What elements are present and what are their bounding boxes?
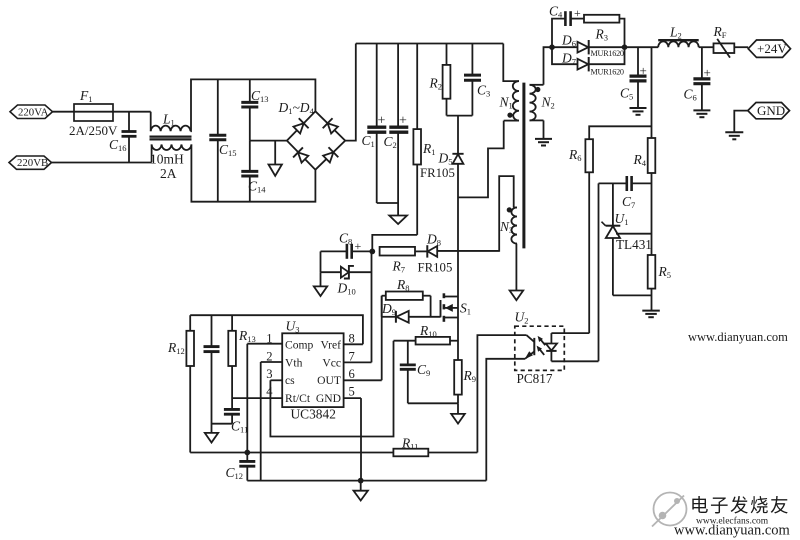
svg-text:C9: C9 [417,362,430,378]
svg-text:cs: cs [285,374,295,387]
wire Vcc riser (node to pin 7) [371,251,373,362]
svg-text:R10: R10 [419,323,437,339]
ground (C5, 3-bar) [630,108,647,115]
wire Vth drop [260,362,262,481]
svg-text:D1~D4: D1~D4 [278,100,315,116]
svg-text:+: + [640,63,647,78]
capacitor C15 [209,79,236,201]
svg-text:3: 3 [266,367,272,381]
svg-text:Rt/Ct: Rt/Ct [285,392,311,405]
resistor R7 [380,247,428,275]
diode D6 MUR1620 [552,33,625,59]
wire TL431 anode to R5 bottom [613,294,652,296]
svg-text:F1: F1 [79,88,93,104]
svg-text:220VB: 220VB [17,157,48,169]
wire Vref rail [190,315,363,344]
capacitor C11 [212,409,249,434]
ground (N3) [510,291,524,301]
node Vcc [369,249,375,255]
pin 4 [232,385,282,399]
wire Comp line (R12 to R11) [190,452,393,454]
capacitor C9 [400,341,430,404]
resistor R4 [633,138,656,255]
wire LED cathode to TL431 [598,183,600,361]
capacitor C5 (electrolytic) [620,47,647,107]
wire R8/D9 left link [381,296,383,317]
svg-text:2: 2 [266,350,272,364]
svg-text:MUR1620: MUR1620 [591,49,624,58]
connector 220VA [10,105,53,119]
wire OUT riser (pin 6 to gate network) [381,296,383,381]
svg-text:N2: N2 [541,95,555,111]
capacitor C12 [226,461,256,481]
inductor L1 (common-mode choke) [150,112,192,182]
svg-text:C8: C8 [339,231,352,247]
ground (GND connector, 3-bar) [725,132,743,139]
shunt regulator U1 TL431 [602,183,652,295]
svg-text:U3: U3 [286,319,300,335]
svg-text:6: 6 [349,367,355,381]
svg-text:+: + [399,114,407,129]
ground (C8/D10) [314,272,327,296]
capacitor C3 [464,44,490,116]
wire 220VA to fuse [53,111,75,113]
pin 2 [261,350,283,364]
inductor L2 [658,25,699,48]
svg-text:电子发烧友: 电子发烧友 [690,495,790,516]
opto phototransistor [525,335,535,359]
resistor R1 [413,44,435,235]
diode D4 (lower-right, points to right vertex) [322,147,339,164]
wire C9 bottom to R9 bottom [408,402,458,404]
pin 8 [344,332,363,346]
svg-text:R11: R11 [401,436,418,452]
resistor R5 [648,255,671,310]
svg-text:C11: C11 [231,419,248,435]
fusible resistor RF [713,24,735,58]
connector GND [748,103,790,119]
wire control ground rail [247,480,486,482]
svg-text:C3: C3 [477,83,490,99]
transformer secondary N2 [530,85,555,121]
svg-text:+: + [574,6,581,20]
diode D1 (upper-left, points to top vertex) [292,118,309,135]
transformer primary N1 [499,81,520,121]
diode D3 (lower-left, points to left vertex) [293,147,310,164]
resistor R9 [454,360,476,395]
diode D8 FR105 [418,232,500,275]
svg-text:R8: R8 [396,277,410,293]
svg-text:FR105: FR105 [420,166,455,180]
svg-text:U1: U1 [615,211,629,227]
svg-text:MUR1620: MUR1620 [591,67,624,76]
capacitor C6 (electrolytic) [684,47,711,110]
wire R6 feed [589,126,651,139]
wire opto emitter riser [486,359,525,481]
svg-text:Vcc: Vcc [322,357,341,370]
node Comp/C12 [244,450,250,456]
ground (TL431/R5, 3-bar) [642,311,660,318]
wire snubber junction down to D5 [457,116,459,154]
wire output sense drop [651,47,653,138]
svg-text:Vth: Vth [285,357,303,370]
svg-text:D8: D8 [426,232,441,248]
svg-text:R7: R7 [392,259,406,275]
wire pin 5 GND drop [360,398,362,481]
wire R1 bottom to Vcc node [372,235,417,252]
svg-text:2A/250V: 2A/250V [69,123,118,138]
pin 3 [266,367,282,381]
svg-text:TL431: TL431 [616,237,652,252]
node output rectifier left [549,44,555,50]
capacitor C16 [109,112,137,163]
wire N3 bottom [515,244,518,291]
ground (Vref filter) [205,433,218,443]
capacitor C4 [549,4,584,48]
svg-text:OUT: OUT [317,374,341,387]
wire R2/C3 junction [447,115,473,117]
svg-text:C5: C5 [620,86,633,102]
wire bridge right vertex to HV rail [345,44,356,141]
svg-text:R4: R4 [633,152,647,168]
MOSFET S1 [441,293,472,403]
svg-text:10mH: 10mH [150,152,184,167]
svg-text:Comp: Comp [285,339,314,352]
resistor R3 [584,15,625,47]
svg-text:D5: D5 [438,151,453,167]
diode D2 (upper-right, points to top vertex) [323,118,340,135]
pin 5 [344,385,361,399]
svg-text:www.dianyuan.com: www.dianyuan.com [674,523,791,539]
svg-text:D7: D7 [561,51,576,67]
ground (bridge mid) [269,141,282,176]
fuse F1 [69,88,118,138]
watermark elecfans logo [652,493,687,527]
svg-text:R5: R5 [658,264,672,280]
transformer core [522,83,525,249]
svg-text:C2: C2 [384,134,397,150]
svg-text:+: + [704,65,711,80]
svg-text:C1: C1 [362,133,375,149]
svg-text:UC3842: UC3842 [291,407,336,422]
svg-text:+: + [355,239,362,253]
wire R8/D9 right link [430,296,432,317]
resistor R10 [394,323,459,345]
wire drain node to N1 bottom (staircase) [458,121,504,198]
svg-text:C7: C7 [622,194,635,210]
svg-text:PC817: PC817 [517,371,553,386]
wire RF to +24V [734,46,748,48]
capacitor C2 (electrolytic) [384,44,409,216]
svg-text:GND: GND [316,392,341,405]
svg-text:C16: C16 [109,137,127,153]
diode D5 [420,151,464,297]
svg-text:R1: R1 [422,141,436,157]
resistor R11 [393,436,477,457]
svg-text:R13: R13 [238,328,256,344]
capacitor C13 [241,79,268,140]
svg-text:R6: R6 [568,147,582,163]
svg-text:D10: D10 [337,281,356,297]
bridge rectifier D1~D4 [278,100,346,170]
svg-text:D6: D6 [561,33,576,49]
wire N2 bottom to ground [543,120,545,138]
ground (C6, 3-bar) [693,110,710,117]
wire C13/C14 mid to bridge left vertex [250,140,287,142]
zener D10 [321,251,372,296]
svg-text:1: 1 [266,332,272,346]
wire HV rail [356,43,504,45]
capacitor C1 (electrolytic) [362,44,387,204]
svg-text:R12: R12 [167,340,185,356]
wire 220VB to L1 [52,162,152,164]
optocoupler U2 PC817 [515,310,565,387]
capacitor C7 [599,176,652,210]
svg-text:L1: L1 [162,112,175,128]
wire output node to L2 [625,46,659,48]
svg-text:N1: N1 [499,95,513,111]
svg-text:+: + [378,114,386,129]
svg-text:S1: S1 [460,301,471,317]
pin 6 [344,367,382,381]
svg-text:C13: C13 [251,88,269,104]
svg-text:FR105: FR105 [418,261,453,275]
resistor R6 [568,139,593,333]
svg-text:RF: RF [713,24,727,40]
node control ground [358,478,364,484]
resistor R12 [167,315,194,452]
svg-text:220VA: 220VA [18,106,49,118]
svg-text:4: 4 [266,385,273,399]
svg-text:R3: R3 [595,27,609,43]
svg-text:C6: C6 [684,87,697,103]
ground (control rail) [354,481,368,501]
ground (N2, 3-bar) [535,139,552,146]
svg-text:www.dianyuan.com: www.dianyuan.com [688,330,788,344]
resistor R13 [228,315,255,409]
svg-text:L2: L2 [669,25,682,41]
opto light arrows [537,336,546,355]
wire N2 top to output node [544,47,553,85]
svg-text:R2: R2 [429,76,443,92]
pin 7 [344,350,372,364]
capacitor C8 (electrolytic) [321,231,373,259]
svg-text:+24V: +24V [757,41,787,56]
ground (bulk caps) [389,216,407,225]
wire fuse to L1 [113,111,151,113]
wire 220VB line [9,156,52,169]
svg-text:R9: R9 [463,368,477,384]
wire N3 top to D8 [437,176,514,251]
wire TL431 ref to divider junction [616,233,652,235]
diode D9 [381,301,441,323]
wire opto collector riser [477,335,526,452]
svg-text:5: 5 [349,385,355,399]
resistor R8 [382,277,431,300]
svg-text:7: 7 [349,350,355,364]
wire C1 bottom bus [377,202,398,204]
capacitor C14 [241,141,266,202]
svg-text:U2: U2 [515,310,529,326]
svg-text:2A: 2A [160,166,177,181]
svg-text:8: 8 [349,332,355,346]
capacitor (Vref filter) [204,315,220,433]
diode D7 MUR1620 [552,47,625,76]
svg-text:D9: D9 [381,301,396,317]
wire GND connector to ground [734,111,748,132]
wire cs sense [270,341,393,437]
IC U3 UC3842 [282,319,343,422]
wire Comp drop [246,344,248,461]
svg-text:GND: GND [757,103,785,118]
wire L2 to Rf [699,46,714,48]
wire AC line B (L1 bottom to bridge bottom) [191,144,315,201]
transformer auxiliary N3 [499,207,517,243]
svg-text:C14: C14 [248,179,266,195]
svg-text:Vref: Vref [320,339,341,352]
resistor R2 [429,44,451,116]
svg-text:C4: C4 [549,4,563,20]
ground (R9) [451,403,465,423]
node output rectifier right [622,44,628,50]
pin 1 [247,332,282,346]
wire N1 top from HV rail [503,44,514,82]
connector +24V [748,40,790,57]
wire AC line A (L1 top to bridge top) [191,79,316,131]
opto LED [546,333,599,361]
svg-text:C15: C15 [219,142,237,158]
